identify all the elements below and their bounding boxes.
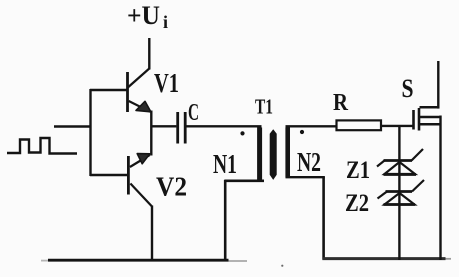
label Z1 (346, 157, 370, 184)
label R (333, 90, 349, 116)
svg-text:N2: N2 (297, 147, 321, 177)
wire S drain (437, 61, 439, 109)
wire capacitor C to transformer primary (186, 125, 262, 127)
zener diode Z1 (377, 149, 423, 175)
wire bottom rail right (secondary side ground) (322, 257, 451, 260)
polarity dot N1 (240, 131, 244, 135)
label T1 (255, 95, 273, 119)
label +Ui supply name (127, 1, 168, 32)
input square-wave symbol (7, 138, 77, 154)
wire bottom rail left (primary side ground) (41, 259, 247, 263)
svg-text:+U: +U (127, 1, 160, 30)
svg-text:T1: T1 (255, 95, 273, 119)
wire emitter node vertical (150, 111, 152, 156)
label N2 (297, 147, 321, 177)
label V1 (154, 68, 179, 98)
transformer T1 primary winding N1 (257, 128, 262, 181)
label V2 (156, 172, 187, 202)
wire supply +Ui to V1 collector (148, 38, 150, 70)
label Z2 (345, 190, 369, 217)
wire resistor R to gate of S (381, 125, 413, 127)
svg-text:C: C (188, 100, 199, 126)
wire secondary bottom to rail (322, 177, 325, 260)
wire N2 top to resistor R (286, 125, 337, 127)
resistor R body (337, 120, 382, 130)
svg-text:S: S (402, 74, 414, 103)
wire V2 base (90, 174, 129, 176)
zener diode Z2 (378, 180, 425, 205)
svg-text:V2: V2 (156, 172, 187, 202)
stray scan speck (281, 265, 283, 267)
polarity dot N2 (300, 130, 304, 134)
label S (402, 74, 414, 103)
svg-text:i: i (163, 12, 168, 32)
label N1 (213, 149, 237, 179)
wire primary bottom to rail (224, 180, 227, 261)
svg-text:R: R (333, 90, 349, 116)
wire zener branch vertical (398, 127, 400, 260)
wire input signal (54, 125, 91, 127)
wire S source to bottom rail (439, 116, 441, 261)
wire V2 collector to bottom rail (151, 206, 153, 262)
svg-text:Z1: Z1 (346, 157, 370, 184)
wire output node to capacitor C (151, 125, 176, 127)
label C (188, 100, 199, 126)
wire input junction vertical (89, 89, 91, 176)
transformer T1 secondary bottom edge (286, 176, 325, 178)
transformer T1 core (271, 131, 276, 179)
transistor V1 (128, 69, 151, 113)
svg-text:Z2: Z2 (345, 190, 369, 217)
transistor V2 (128, 154, 152, 207)
svg-text:N1: N1 (213, 149, 237, 179)
wire V1 base (90, 89, 128, 91)
svg-text:V1: V1 (154, 68, 179, 98)
transformer T1 secondary winding N2 (285, 128, 290, 178)
capacitor C (178, 112, 186, 144)
transformer T1 primary bottom edge (224, 180, 264, 183)
transistor S (MOSFET) (414, 107, 442, 130)
